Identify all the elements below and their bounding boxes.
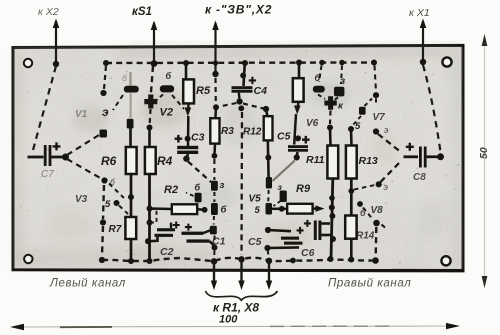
wire: R9 left lead	[272, 208, 288, 211]
wire: dashed column down-left to bottom bus	[102, 185, 104, 256]
wire: C2 lower lead	[148, 237, 158, 241]
node: right column bottom dot	[372, 257, 379, 264]
wire: dashed V7 emitter to C8 junction	[378, 134, 402, 153]
wire: dashed center column to bottom	[240, 112, 243, 255]
wire: R10 bottom lead with arrow	[296, 102, 299, 109]
wire: dashed pad to C3 column	[186, 193, 194, 197]
wire: dashed cross to R4	[149, 109, 152, 124]
node: bus corner left	[103, 60, 109, 66]
wire: R11 bottom lead to bottom bus	[331, 179, 333, 260]
node: bus / R5 lead	[183, 60, 189, 66]
wire: R13 top lead	[350, 129, 353, 146]
transistor V2 body pad	[160, 85, 174, 92]
polarity + of C3	[175, 135, 183, 143]
svg-text:R9: R9	[296, 183, 311, 195]
circuit board substrate	[13, 45, 463, 271]
wire: dashed column from S1 node to cross	[151, 66, 153, 96]
svg-text:V3: V3	[75, 194, 88, 205]
svg-text:R14: R14	[356, 231, 375, 242]
junction cross pad (left)	[144, 95, 157, 109]
wire: C5b upper lead	[268, 230, 291, 231]
svg-text:э: э	[384, 182, 389, 192]
arrowhead outlet 2	[238, 281, 244, 291]
wire: R6 bottom lead to R7	[130, 174, 133, 218]
wire: C3 bottom lead	[187, 154, 188, 157]
node: pad above R13	[359, 107, 366, 115]
wire: C1 lower lead to dot	[210, 241, 215, 245]
edge vignette (decorative)	[14, 48, 461, 268]
capacitor C7 left lead	[28, 156, 44, 159]
svg-text:5: 5	[105, 199, 111, 210]
node: R12 bottom pad	[266, 177, 272, 189]
arrowhead right of R9	[316, 205, 325, 211]
polarity + of C7	[53, 142, 61, 150]
wire: dashed down to з pad	[213, 159, 215, 180]
capacitor C8 right lead	[427, 155, 439, 158]
wire: C5 diagonal lead to R12 pad (faded)	[273, 161, 295, 182]
wire: R7 bottom lead	[130, 239, 133, 261]
svg-text:C5: C5	[277, 131, 291, 143]
svg-text:С7: С7	[41, 169, 54, 180]
wire: C5 top lead	[294, 114, 296, 145]
node: V1 emitter pad	[100, 130, 108, 138]
transistor V1 body pad	[124, 86, 139, 93]
capacitor C2 plates (horizontal)	[157, 228, 175, 231]
wire: outlet 2 through board	[240, 259, 242, 285]
node: C1 right pad	[210, 226, 217, 235]
node: V3 base dot	[101, 177, 107, 183]
arrowhead left of dimension	[10, 324, 24, 330]
svg-text:С8: С8	[413, 172, 426, 183]
node: bus dot V6	[319, 60, 325, 66]
node: center column top dot	[238, 105, 244, 111]
arrowhead down to C5	[294, 106, 301, 115]
wire: dashed R13 column to э dot	[354, 185, 375, 190]
node: bus dot outlet 1	[211, 258, 217, 264]
svg-text:R12: R12	[243, 127, 262, 138]
arrowhead up X1	[53, 19, 60, 29]
node: right column top dot	[373, 220, 380, 227]
wire: R4 bottom lead down to bottom bus	[148, 174, 151, 261]
node: dot on C3 lead	[185, 136, 191, 142]
svg-text:R5: R5	[196, 85, 211, 97]
node: C5b upper feed dot	[265, 227, 271, 233]
node: R9 left dot	[279, 206, 285, 212]
wire: C6 upper lead right	[321, 222, 330, 225]
capacitor C5b plates (horizontal)	[281, 237, 299, 240]
wire: dashed V6 body to cross	[318, 95, 325, 100]
polarity + of C8	[406, 143, 414, 151]
svg-text:к R1, Х8: к R1, Х8	[213, 301, 259, 315]
capacitor C7 plates	[44, 145, 47, 166]
node: bus / R10 lead	[296, 60, 302, 66]
svg-text:R3: R3	[221, 126, 234, 137]
node: C5 bottom dot	[294, 154, 300, 160]
polarity + of C1	[185, 224, 192, 231]
node: V4 з pad	[211, 181, 218, 191]
mounting hole bottom-right	[441, 256, 450, 265]
node: bus dot outlet 3	[266, 258, 272, 264]
wire: dashed V7 pins	[375, 99, 377, 105]
node: pad right of R2 label	[195, 193, 202, 203]
arrowhead right of dimension	[446, 323, 460, 329]
svg-text:R11: R11	[306, 154, 325, 166]
scan speckles (decorative)	[16, 50, 459, 266]
node: C2 feed dot on column	[145, 238, 151, 244]
node: V4 б pad	[211, 203, 218, 215]
wire: dashed з pad to б pad	[274, 201, 281, 206]
node: R2 right dot	[202, 207, 208, 213]
wire: R2 right lead	[197, 208, 203, 211]
resistor R13	[346, 146, 357, 179]
wire: dashed C3 to з pad diagonal	[188, 162, 211, 183]
polarity + of C5	[302, 136, 310, 144]
resistor R7	[125, 217, 136, 239]
wire: C1 upper lead to pad	[204, 230, 212, 233]
svg-text:V8: V8	[371, 205, 384, 216]
mounting hole bottom-left	[24, 255, 32, 263]
wire: dashed cross to R11	[329, 111, 332, 125]
svg-text:С5: С5	[248, 236, 262, 248]
junction cross pad (right)	[324, 96, 336, 110]
node: з pad	[334, 87, 344, 97]
node: left column dot	[100, 219, 106, 225]
node: pin 5 dot	[114, 200, 120, 206]
svg-text:б: б	[195, 183, 201, 193]
svg-text:R7: R7	[109, 224, 122, 235]
svg-text:R2: R2	[164, 184, 178, 196]
capacitor C4 plates	[232, 86, 253, 89]
node: C3 bottom dot	[183, 156, 189, 162]
svg-text:з: з	[220, 180, 225, 191]
node: V8 э dot	[376, 181, 382, 187]
wire: dashed з pad to cross	[334, 98, 339, 101]
capacitor C1 plates (horizontal)	[182, 232, 204, 235]
node: R13 top dot	[348, 126, 354, 132]
node: R12 lead dot	[265, 155, 271, 161]
node: C5b lower feed dot	[264, 245, 270, 251]
node: dot on C4 lead	[240, 73, 246, 79]
node: C4 bottom dot	[237, 98, 243, 104]
wire: top supply bus (dashed)	[106, 61, 374, 64]
node: R3 bottom dot	[212, 153, 218, 159]
node: V1 collector pad	[100, 90, 106, 96]
polarity + of C5b	[297, 227, 304, 234]
capacitor C8 plates	[419, 147, 422, 168]
node: bus dot з-lead	[339, 60, 345, 66]
wire: dashed V8 to right column	[363, 208, 373, 220]
node: dot on C5 lead	[295, 135, 301, 141]
node: bus / C4 lead	[242, 60, 248, 66]
resistor R3	[210, 118, 219, 143]
wire: dashed з to б	[213, 192, 215, 202]
wire: lead to X1 (top left, off-board)	[55, 21, 57, 64]
node: R11 top dot	[327, 125, 333, 131]
capacitor C4 top lead	[244, 63, 245, 86]
node: -3V lead entry	[212, 71, 218, 77]
wire: lead to S1	[153, 23, 155, 64]
wire: bottom ground bus (dashed)	[102, 258, 376, 262]
wire: dashed drop from bus to V1 collector pad	[104, 66, 106, 89]
wire: lead to X3 (top right)	[422, 21, 424, 62]
mounting hole top-left	[24, 59, 32, 67]
wire: faint lead above V1 body	[129, 72, 131, 86]
wire: dashed right column down	[375, 227, 378, 256]
resistor R2	[172, 204, 197, 214]
polarity + of C4	[249, 77, 256, 84]
svg-text:С1: С1	[212, 236, 226, 248]
wire: dashed V3 to R2 row	[109, 184, 124, 199]
resistor R12	[264, 116, 273, 140]
capacitor C8 left lead	[404, 155, 419, 158]
svg-text:R13: R13	[359, 155, 378, 167]
svg-text:C3: C3	[191, 132, 205, 144]
wire: dashed to bus	[267, 251, 270, 256]
svg-text:50: 50	[478, 147, 490, 159]
wire: R11 top lead	[329, 128, 332, 147]
wire: R4 top lead	[148, 128, 151, 148]
resistor R6	[126, 147, 137, 174]
wire: dashed V2 body to cross	[157, 95, 164, 101]
resistor R9	[287, 204, 312, 214]
node: column dots ladder	[329, 195, 335, 201]
node: bus end right / V7	[371, 60, 377, 66]
node: dot between R6 and R7	[128, 194, 134, 200]
node: R4/R2 junction	[147, 206, 153, 212]
node: bus dot R7	[128, 258, 134, 264]
node: R6 top pad	[127, 119, 134, 129]
wire: dashed bus to V6 body	[319, 66, 322, 83]
wire: dashed pad up-right	[365, 99, 373, 107]
capacitor C6 plates (vertical)	[314, 221, 317, 241]
svg-text:5: 5	[255, 205, 261, 216]
svg-text:кS1: кS1	[132, 6, 152, 18]
svg-text:C4: C4	[254, 85, 268, 97]
node: R12 top dot	[263, 106, 269, 112]
wire: R12 top lead	[266, 109, 268, 117]
wire: R3 top lead	[214, 107, 217, 118]
wire: C3 top lead	[187, 116, 190, 146]
wire: C5 bottom lead	[296, 152, 299, 155]
polarity + of C2	[173, 222, 180, 229]
wire: R2 left lead	[150, 207, 173, 210]
thicker bottom edge	[13, 269, 463, 272]
curly brace under outlets	[206, 291, 278, 300]
svg-text:V1: V1	[75, 109, 88, 120]
arrowhead top of 50	[482, 34, 488, 46]
wire: R5 top lead	[185, 63, 188, 80]
node: V5 з pad	[280, 191, 287, 203]
polarity + of C6	[304, 220, 311, 227]
wire: dashed X1-lead diagonal to C7	[33, 66, 56, 150]
svg-text:R6: R6	[101, 154, 117, 168]
wire: outlet 1 through board	[213, 261, 215, 285]
svg-text:к -"ЗВ",Х2: к -"ЗВ",Х2	[205, 3, 272, 17]
wire: dashed б pad to C1 pad	[213, 216, 215, 225]
dimension line bottom (100 mm)	[14, 326, 457, 327]
node: bus dot C5 column	[290, 258, 296, 264]
wire: R3 bottom lead	[213, 144, 216, 155]
wire: dashed pin5 to R7	[119, 206, 128, 215]
node: X1 lead entry	[53, 61, 59, 67]
arrowhead down to C3	[185, 108, 192, 117]
wire: hook tick right of dot	[382, 225, 386, 228]
capacitor C3 plates	[177, 146, 198, 149]
resistor R5	[183, 79, 194, 103]
node: C1 lower dot	[212, 245, 218, 251]
resistor R14	[345, 216, 356, 239]
svg-text:V7: V7	[373, 112, 386, 123]
arrowhead bottom of 50	[482, 276, 488, 288]
wire: outlet 3 through board	[268, 261, 270, 285]
arrowhead up -3V	[212, 21, 219, 31]
wire: dashed C7 to V1 emitter	[67, 135, 99, 155]
svg-text:э: э	[384, 125, 389, 135]
svg-text:С2: С2	[160, 246, 174, 258]
svg-text:V5: V5	[249, 194, 262, 205]
transistor V6 body pad	[313, 86, 325, 93]
node: C7 junction	[62, 154, 69, 161]
node: bus dot R14	[348, 257, 354, 263]
node: R3 top dot	[213, 104, 219, 110]
wire: dashed -3V column down to R3	[214, 78, 217, 104]
capacitor C7 right lead	[51, 156, 63, 159]
svg-text:Правый канал: Правый канал	[328, 278, 411, 290]
wire: C4 bottom lead	[238, 93, 241, 99]
svg-text:к Х2: к Х2	[38, 6, 59, 18]
arrowhead up S1	[151, 21, 158, 31]
wire: R5 bottom lead with arrow	[187, 103, 190, 111]
wire: lead to -3V / X2	[214, 23, 216, 74]
wire: C2 upper stub	[170, 223, 172, 229]
svg-text:V6: V6	[306, 118, 319, 129]
node: left column bottom	[99, 257, 105, 263]
wire: dashed э dot up to C8 junction	[381, 161, 402, 183]
faint smudge above top edge	[130, 42, 460, 46]
node: V7 emitter dot	[373, 128, 379, 134]
node: V7 collector dot	[373, 92, 379, 98]
node: dot between R13 and R14	[348, 188, 354, 194]
wire: R9 right lead	[313, 207, 318, 210]
mounting hole top-right	[442, 57, 451, 66]
wire: dashed jumper hook	[151, 209, 157, 223]
svg-text:100: 100	[219, 314, 238, 326]
node: X3 lead entry	[420, 59, 426, 65]
wire: dashed link C4 to R3	[219, 103, 237, 107]
svg-text:R4: R4	[157, 154, 173, 168]
node: V5 б pad	[266, 203, 273, 215]
wire: R10 top lead	[298, 63, 301, 80]
node: V8 б dot	[357, 201, 363, 207]
node: C8 right junction	[437, 153, 444, 160]
node: bus dot R11	[328, 256, 334, 262]
dimension line right (50 mm)	[484, 41, 486, 282]
resistor R4	[145, 147, 156, 174]
wire: dashed V2 to R5 arrow	[172, 95, 184, 109]
wire: C6 lower lead right	[321, 234, 331, 237]
node: bus dot outlet 2	[238, 256, 244, 262]
arrowhead outlet 1	[211, 281, 217, 291]
wire: dashed pad to bottom bus	[213, 236, 215, 257]
capacitor C5 plates	[288, 145, 308, 148]
wire: dashed bus to V7	[375, 66, 377, 93]
wire: faint lead below V1 body	[130, 93, 132, 118]
svg-text:С6: С6	[301, 247, 315, 259]
svg-text:б: б	[166, 71, 172, 81]
wire: R6 top lead	[129, 128, 132, 148]
svg-text:э: э	[102, 105, 109, 119]
resistor R11	[327, 146, 338, 179]
node: bus dot R4	[147, 258, 153, 264]
wire: dashed C7 to V3 base	[67, 159, 102, 179]
node: R4 top dot	[147, 125, 153, 131]
svg-text:Левый канал: Левый канал	[49, 278, 126, 290]
wire: C5b lower lead	[268, 246, 300, 249]
node: jumper dot	[147, 220, 153, 226]
node: S1 lead entry	[151, 60, 158, 67]
resistor R10	[293, 78, 304, 102]
svg-text:V2: V2	[160, 107, 173, 119]
wire: dashed R12 pad to б pad	[267, 190, 269, 202]
node: bus crossing -3V lead	[213, 60, 218, 65]
wire: R13 bottom lead to R14	[350, 179, 353, 215]
wire: R12 bottom lead	[266, 140, 269, 177]
wire: R14 bottom lead	[350, 239, 353, 260]
wire: dashed bus to з pad	[341, 66, 342, 85]
arrowhead outlet 3	[266, 281, 272, 291]
wire: dashed pad to R13 top	[353, 116, 361, 125]
svg-text:к Х1: к Х1	[409, 7, 430, 19]
wire: dashed V1 body to э area	[113, 95, 123, 110]
wire: dashed X3 lead diagonal to C8	[423, 65, 441, 152]
arrowhead up X3	[420, 19, 427, 29]
scan smudges (decorative)	[50, 82, 446, 260]
wire: dashed link C4 to R12	[243, 104, 264, 109]
